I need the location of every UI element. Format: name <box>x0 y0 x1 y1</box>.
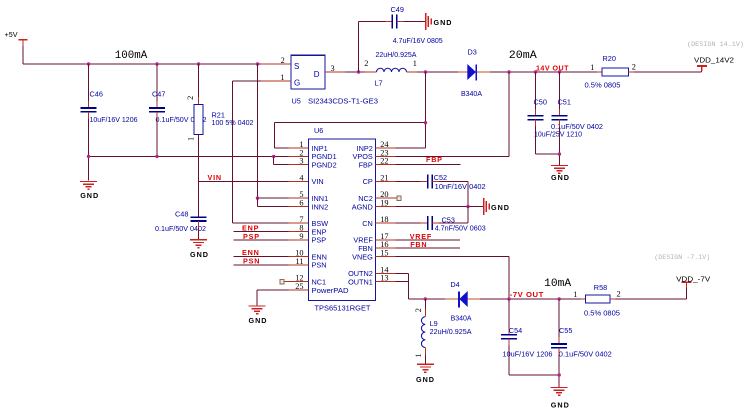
svg-text:10uF/16V 1206: 10uF/16V 1206 <box>503 350 553 359</box>
svg-text:FBP: FBP <box>359 161 373 170</box>
svg-text:D3: D3 <box>468 48 477 57</box>
svg-text:VIN: VIN <box>312 177 324 186</box>
pin name AGND U6 pin 19 <box>352 202 373 211</box>
wire C50 C51 to ground <box>536 120 560 165</box>
wire C47 to ground rail <box>156 112 158 157</box>
wire PGND2 branch <box>274 156 309 164</box>
svg-text:C51: C51 <box>558 98 571 107</box>
pin name FBP U6 pin 22 <box>359 161 373 170</box>
svg-text:1: 1 <box>413 59 417 68</box>
node junction VNEG C54 <box>507 297 510 300</box>
svg-text:3: 3 <box>299 157 303 166</box>
pin 5 stub INN1 <box>289 197 309 199</box>
wire L7 to D3 <box>407 71 459 73</box>
capacitor C50 <box>528 98 583 139</box>
pin name VNEG U6 pin 15 <box>352 252 373 261</box>
pin 3 stub of U5 drain <box>325 64 345 73</box>
capacitor C48 <box>155 209 207 233</box>
wire U5 gate to BSW <box>233 81 289 223</box>
wire R20 to VDD_14V2 <box>634 66 702 72</box>
svg-text:C47: C47 <box>152 90 165 99</box>
node junction C51 tap <box>558 70 561 73</box>
ground GND at PowerPAD <box>249 306 268 325</box>
capacitor C54 <box>501 326 553 358</box>
pin name CN U6 pin 18 <box>362 219 373 228</box>
wire +5V drop <box>22 46 24 64</box>
inductor L9 <box>414 299 472 364</box>
svg-text:1: 1 <box>573 290 577 299</box>
pin number 13 U6 <box>380 274 388 283</box>
svg-text:GND: GND <box>190 250 209 259</box>
pin number 11 U6 <box>296 257 304 266</box>
diode D3 B340A <box>458 48 490 98</box>
svg-text:GND: GND <box>491 203 510 212</box>
pin number 19 U6 <box>380 198 388 207</box>
wire VIN to U6 pin 4 <box>199 180 309 182</box>
wire U5 drain to L7 <box>345 71 377 73</box>
wire R21 to VIN node <box>198 135 200 218</box>
pin name PGND1 U6 pin 2 <box>312 152 337 161</box>
pin 14 stub OUTN2 <box>376 272 396 274</box>
resistor R21 <box>186 64 253 142</box>
ground GND at AGND <box>484 198 510 215</box>
node junction C46 on rail <box>87 62 90 65</box>
node junction 14V OUT <box>507 70 510 73</box>
svg-text:OUTN1: OUTN1 <box>348 277 373 286</box>
wire VREF net stub <box>396 239 460 241</box>
pin 6 stub INN2 <box>289 206 309 208</box>
ground GND at C48 <box>190 240 209 259</box>
label FBP net <box>426 155 443 164</box>
pin name NC2 U6 pin 20 <box>358 194 373 203</box>
no-connect square NC1 <box>280 279 284 283</box>
svg-text:10uF/16V 1206: 10uF/16V 1206 <box>90 115 138 124</box>
node junction INP loop tee <box>424 121 427 124</box>
capacitor C47 <box>149 90 207 124</box>
pin 21 stub CP <box>376 180 396 182</box>
svg-text:R20: R20 <box>603 54 616 63</box>
pin name ENN U6 pin 10 <box>312 252 327 261</box>
wire D3 to 14V OUT node <box>490 71 597 73</box>
pin number 9 U6 <box>299 232 303 241</box>
pin name PSP U6 pin 9 <box>312 236 327 245</box>
pin name CP U6 pin 21 <box>363 177 373 186</box>
wire C46 drop <box>88 64 90 108</box>
svg-text:2: 2 <box>186 96 195 100</box>
svg-text:S: S <box>294 62 299 71</box>
svg-text:B340A: B340A <box>451 313 472 322</box>
capacitor C52 <box>428 173 486 191</box>
pin name INP2 U6 pin 24 <box>357 144 373 153</box>
label VIN net <box>208 173 222 182</box>
pin number 17 U6 <box>380 232 388 241</box>
pin 11 stub PSN <box>289 264 309 266</box>
svg-text:PowerPAD: PowerPAD <box>312 286 349 295</box>
pin name ENP U6 pin 8 <box>312 227 327 236</box>
svg-text:2: 2 <box>617 290 621 299</box>
wire C53 to AGND riser <box>432 207 468 224</box>
power VDD_14V2 <box>694 55 734 71</box>
svg-text:10mA: 10mA <box>544 278 572 290</box>
svg-text:GND: GND <box>80 191 99 200</box>
pin number 25 U6 <box>295 282 303 291</box>
svg-text:3: 3 <box>331 64 335 73</box>
svg-text:4.7nF/50V 0603: 4.7nF/50V 0603 <box>435 223 486 232</box>
svg-text:PSP: PSP <box>312 236 327 245</box>
svg-text:VDD_-7V: VDD_-7V <box>676 274 710 283</box>
pin 16 stub FBN <box>376 247 396 249</box>
pin 23 stub VPOS <box>376 155 396 157</box>
svg-text:22uH/0.925A: 22uH/0.925A <box>430 327 472 336</box>
node junction C55 tap <box>558 297 561 300</box>
svg-text:-7V OUT: -7V OUT <box>510 290 544 299</box>
pin number 2 U6 <box>299 148 303 157</box>
pin 15 stub VNEG <box>376 256 396 258</box>
pin name INP1 U6 pin 1 <box>312 144 328 153</box>
pin name INN1 U6 pin 5 <box>312 194 329 203</box>
svg-text:2: 2 <box>281 56 285 65</box>
wire C50 drop <box>535 72 537 116</box>
wire ENP net stub <box>234 231 289 233</box>
svg-text:2: 2 <box>364 59 368 68</box>
pin 25 stub PowerPAD <box>289 289 309 291</box>
pin name NC1 U6 pin 12 <box>312 277 327 286</box>
wire AGND to ground <box>396 206 484 208</box>
capacitor C51 <box>551 98 603 132</box>
svg-text:VNEG: VNEG <box>352 252 373 261</box>
resistor R58 <box>573 283 620 318</box>
svg-text:C46: C46 <box>90 90 103 99</box>
label 10mA <box>544 278 572 290</box>
pin number 7 U6 <box>299 215 303 224</box>
IC U6 TPS65131RGET <box>309 126 376 312</box>
svg-text:PSN: PSN <box>312 261 327 270</box>
pin name INN2 U6 pin 6 <box>312 202 329 211</box>
wire C51 drop <box>558 72 560 116</box>
ground GND at C46 <box>80 182 99 200</box>
pin number 22 U6 <box>380 157 388 166</box>
pin 24 stub INP2 <box>376 147 396 149</box>
svg-text:1: 1 <box>280 73 284 82</box>
pin 12 stub NC1 <box>284 281 308 283</box>
svg-text:TPS65131RGET: TPS65131RGET <box>315 303 372 312</box>
pin name VREF U6 pin 17 <box>353 236 373 245</box>
pin 22 stub FBP <box>376 164 396 166</box>
svg-text:INN2: INN2 <box>312 202 329 211</box>
label ENN net <box>242 248 260 257</box>
svg-text:FBN: FBN <box>410 240 427 249</box>
svg-text:VIN: VIN <box>208 173 222 182</box>
pin number 14 U6 <box>380 265 389 274</box>
note design 14.1V <box>687 41 744 48</box>
pin number 4 U6 <box>299 173 304 182</box>
wire CN to C53 <box>396 222 428 224</box>
svg-text:AGND: AGND <box>352 202 373 211</box>
svg-text:(DESIGN -7.1V): (DESIGN -7.1V) <box>654 254 710 261</box>
pin name BSW U6 pin 7 <box>312 219 329 228</box>
svg-text:4.7uF/16V 0805: 4.7uF/16V 0805 <box>393 36 443 45</box>
ground GND at L9 <box>416 364 435 384</box>
svg-text:0.5% 0805: 0.5% 0805 <box>585 81 621 90</box>
node junction INP feed <box>424 70 427 73</box>
pin number 15 U6 <box>380 249 388 258</box>
svg-text:GND: GND <box>249 316 268 325</box>
pin number 24 U6 <box>380 140 389 149</box>
svg-text:2: 2 <box>632 63 636 72</box>
node junction AGND filter <box>466 205 469 208</box>
wire VPOS to 14V OUT <box>396 72 509 156</box>
wire PowerPAD to ground <box>257 290 288 306</box>
svg-text:CP: CP <box>363 177 373 186</box>
label -7V OUT net <box>510 290 544 299</box>
svg-text:1: 1 <box>414 353 423 357</box>
pin number 12 U6 <box>295 274 303 283</box>
ground GND at C54 C55 <box>551 388 570 410</box>
svg-text:100mA: 100mA <box>115 50 148 62</box>
wire C49 riser <box>359 22 393 72</box>
svg-text:C49: C49 <box>391 5 404 14</box>
node junction R21 on rail <box>197 62 200 65</box>
label 100mA <box>115 50 148 62</box>
svg-text:D4: D4 <box>450 280 459 289</box>
wire C48 to ground <box>198 221 200 239</box>
pin name PSN U6 pin 11 <box>312 261 327 270</box>
svg-text:1: 1 <box>590 63 594 72</box>
pin number 20 U6 <box>380 190 388 199</box>
svg-text:FBP: FBP <box>426 155 443 164</box>
wire OUTN to -7V rail <box>396 273 455 299</box>
pin 17 stub VREF <box>376 239 396 241</box>
wire FBP net stub <box>396 164 461 166</box>
pin number 3 U6 <box>299 157 303 166</box>
svg-text:6: 6 <box>299 198 303 207</box>
node junction C49 tap <box>357 70 360 73</box>
resistor R20 <box>585 54 636 89</box>
wire ENN net stub <box>234 256 289 258</box>
svg-text:U5: U5 <box>292 96 301 105</box>
pin name VIN U6 pin 4 <box>312 177 324 186</box>
wire PSP net stub <box>234 239 289 241</box>
wire D4 to -7V OUT node <box>480 298 581 300</box>
wire C47 drop <box>156 64 158 108</box>
node junction C50 C51 gnd <box>558 152 561 155</box>
node junction INN feed on rail <box>256 62 259 65</box>
svg-text:C48: C48 <box>175 209 188 218</box>
svg-text:GND: GND <box>434 18 453 27</box>
pin number 5 U6 <box>299 190 303 199</box>
pin number 1 U6 <box>299 140 303 149</box>
svg-text:0.1uF/50V 0402: 0.1uF/50V 0402 <box>551 122 603 131</box>
ground GND at C50 C51 <box>551 166 570 183</box>
pin 9 stub PSP <box>289 239 309 241</box>
wire INP2 to SW node <box>396 147 426 149</box>
label 20mA <box>509 50 538 62</box>
svg-text:SI2343CDS-T1-GE3: SI2343CDS-T1-GE3 <box>308 96 378 105</box>
svg-text:20mA: 20mA <box>509 50 538 62</box>
pin number 8 U6 <box>299 224 303 233</box>
svg-text:0.1uF/50V 0402: 0.1uF/50V 0402 <box>559 350 612 359</box>
svg-text:CN: CN <box>362 219 373 228</box>
svg-text:C55: C55 <box>559 326 572 335</box>
pin name OUTN1 U6 pin 13 <box>348 277 373 286</box>
wire C46 to ground rail <box>88 112 90 181</box>
node junction L9 tap <box>424 297 427 300</box>
svg-text:C50: C50 <box>534 98 547 107</box>
node junction PGND2 branch <box>272 155 275 158</box>
pin number 10 U6 <box>295 249 303 258</box>
svg-text:PSP: PSP <box>243 232 260 241</box>
wire CP to C52 <box>396 180 428 182</box>
pin 10 stub ENN <box>289 256 309 258</box>
transistor U5 SI2343CDS <box>291 55 378 105</box>
label FBN net <box>410 240 427 249</box>
pin 13 stub OUTN1 <box>376 281 396 283</box>
svg-text:GND: GND <box>551 173 570 182</box>
node junction INN1 <box>256 196 259 199</box>
power +5V <box>5 30 28 47</box>
capacitor C49 <box>391 5 443 45</box>
pin name PGND2 U6 pin 3 <box>312 161 337 170</box>
wire INN2 branch <box>258 198 289 206</box>
svg-text:22uH/0.925A: 22uH/0.925A <box>376 50 417 59</box>
wire PSN net stub <box>234 264 289 266</box>
ground GND at C49 <box>426 13 453 30</box>
svg-text:U6: U6 <box>314 126 323 135</box>
pin number 21 U6 <box>380 173 388 182</box>
wire INN feed from rail <box>258 64 289 198</box>
svg-text:14V OUT: 14V OUT <box>536 63 569 72</box>
wire C49 to ground <box>397 21 426 23</box>
node junction C50 tap <box>534 70 537 73</box>
node junction C54 C55 gnd <box>558 373 561 376</box>
note design -7.1V <box>654 254 710 261</box>
label 14V OUT net <box>536 63 569 72</box>
pin name FBN U6 pin 16 <box>358 244 373 253</box>
pin number 23 U6 <box>380 148 388 157</box>
wire C54 drop <box>508 299 510 335</box>
pin number 16 U6 <box>380 240 388 249</box>
pin 1 stub INP1 <box>289 147 309 149</box>
wire R58 to VDD_-7V <box>616 283 687 300</box>
svg-text:PSN: PSN <box>243 256 260 265</box>
wire GND bottom rail C46-C47-PGND1 <box>89 155 289 157</box>
pin 18 stub CN <box>376 222 396 224</box>
svg-text:C52: C52 <box>434 173 447 182</box>
wire VNEG to -7V node <box>396 257 509 299</box>
wire C52 to AGND riser <box>432 181 468 206</box>
capacitor C55 <box>551 326 612 358</box>
svg-text:1: 1 <box>187 137 196 141</box>
svg-text:G: G <box>294 79 300 88</box>
svg-text:R58: R58 <box>594 283 607 292</box>
svg-text:C54: C54 <box>509 326 522 335</box>
pin name PowerPAD U6 pin 25 <box>312 286 349 295</box>
pin name OUTN2 U6 pin 14 <box>348 269 373 278</box>
svg-text:GND: GND <box>416 375 435 384</box>
svg-text:GND: GND <box>551 401 570 410</box>
label VREF net <box>410 232 432 241</box>
wire FBN net stub <box>396 247 460 249</box>
wire main +5V rail <box>23 63 261 65</box>
pin 2 stub PGND1 <box>289 155 309 157</box>
pin 19 stub AGND <box>376 206 396 208</box>
pin number 6 U6 <box>299 198 303 207</box>
pin 7 stub BSW <box>289 222 309 224</box>
inductor L7 <box>364 50 417 87</box>
pin 1 stub of U5 gate <box>261 73 291 82</box>
node junction C47 gnd rail <box>155 155 158 158</box>
svg-text:(DESIGN 14.1V): (DESIGN 14.1V) <box>687 41 744 48</box>
svg-text:L7: L7 <box>375 79 383 88</box>
capacitor C53 <box>428 215 486 232</box>
svg-text:B340A: B340A <box>461 89 482 98</box>
svg-text:+5V: +5V <box>5 30 18 39</box>
node junction C46 gnd rail <box>87 155 90 158</box>
node junction C47 on rail <box>155 62 158 65</box>
pin 8 stub ENP <box>289 231 309 233</box>
pin number 18 U6 <box>380 215 388 224</box>
label PSN net <box>243 256 260 265</box>
svg-text:0.5% 0805: 0.5% 0805 <box>584 308 620 317</box>
wire C55 drop <box>558 299 560 344</box>
svg-text:D: D <box>314 70 320 79</box>
power VDD_-7V <box>676 274 710 287</box>
diode D4 B340A <box>445 280 480 322</box>
wire C54 C55 to ground <box>509 339 559 387</box>
pin name VPOS U6 pin 23 <box>353 152 373 161</box>
svg-text:2: 2 <box>414 308 423 312</box>
svg-text:VDD_14V2: VDD_14V2 <box>694 55 734 64</box>
capacitor C46 <box>81 90 138 124</box>
pin 20 stub NC2 <box>376 197 397 199</box>
pin 2 stub of U5 <box>261 56 291 65</box>
no-connect square NC2 <box>397 196 401 200</box>
svg-text:10nF/16V 0402: 10nF/16V 0402 <box>435 182 486 191</box>
svg-text:PGND2: PGND2 <box>312 161 337 170</box>
label ENP net <box>242 224 259 233</box>
label PSP net <box>243 232 260 241</box>
wire INP1 loop from SW node <box>275 72 426 148</box>
